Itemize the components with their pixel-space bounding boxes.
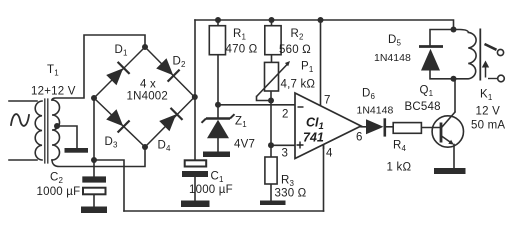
svg-text:12+12 V: 12+12 V — [31, 86, 76, 98]
wire pin 4 to bottom rail — [323, 145, 325, 212]
svg-text:1N4148: 1N4148 — [357, 105, 394, 117]
op-amp U1 (CI1 741) — [295, 93, 361, 159]
node bridge right apex — [192, 94, 198, 100]
svg-text:1000 µF: 1000 µF — [189, 184, 233, 196]
node rail pin7 — [318, 17, 324, 23]
relay K1 core — [479, 29, 481, 81]
node bridge top apex — [142, 44, 148, 50]
wire R3 to ground — [270, 184, 272, 201]
wire bottom rail (0V) — [124, 210, 324, 212]
wire R2 to P1 — [271, 55, 273, 63]
node left apex / C2 — [91, 157, 97, 163]
svg-text:4V7: 4V7 — [234, 139, 255, 151]
ground C1 — [181, 201, 210, 208]
relay K1 lower contact — [498, 75, 505, 82]
diode D2 — [157, 59, 180, 82]
wire AC input bottom stub — [9, 159, 37, 161]
relay K1 switch blade — [485, 44, 497, 50]
node pin3 / R3 — [268, 142, 274, 148]
wire R2 top lead — [271, 20, 273, 26]
svg-text:1 kΩ: 1 kΩ — [387, 162, 412, 174]
wire C2 lead — [93, 160, 95, 176]
wire pin3 net — [271, 144, 295, 146]
svg-text:741: 741 — [303, 131, 324, 145]
wire center tap to ground — [57, 126, 77, 148]
node center tap — [54, 123, 60, 129]
wire lower contact stub — [488, 78, 498, 80]
svg-text:470 Ω: 470 Ω — [226, 44, 258, 56]
wire left apex node to bottom rail — [94, 160, 124, 211]
capacitor C2 — [82, 176, 106, 206]
svg-text:1000 µF: 1000 µF — [37, 186, 81, 198]
bridge rectifier edges — [94, 47, 195, 147]
svg-text:4: 4 — [326, 148, 333, 160]
node rail R1 — [215, 17, 221, 23]
resistor R2 — [265, 26, 281, 55]
svg-text:12 V: 12 V — [476, 106, 501, 118]
wire Q1 emitter to ground — [453, 145, 455, 169]
svg-text:4 x: 4 x — [140, 79, 156, 91]
wire R1 top lead — [217, 20, 219, 26]
ground R3 — [260, 201, 286, 206]
wire right apex vertical (rail to C1) — [194, 20, 196, 160]
wire bridge left apex down — [93, 98, 95, 160]
resistor R1 — [209, 26, 225, 55]
svg-text:330 Ω: 330 Ω — [275, 188, 307, 200]
transformer T1 secondary winding — [52, 100, 60, 160]
wire pin 7 to +rail — [320, 20, 322, 106]
diode D3 — [107, 110, 130, 132]
potentiometer P1 — [257, 61, 291, 97]
resistor R4 — [393, 123, 421, 134]
node relay top — [451, 27, 457, 33]
wire secondary bottom to bridge bottom apex — [52, 147, 145, 167]
transformer T1 primary winding — [35, 101, 42, 160]
label op-amp minus — [298, 106, 304, 108]
wire secondary top to bridge top apex — [52, 35, 145, 100]
diode D5 — [419, 47, 443, 71]
node bridge left apex — [91, 95, 97, 101]
wire top +rail — [195, 20, 454, 30]
junction node dots — [54, 17, 457, 163]
svg-text:4,7 kΩ: 4,7 kΩ — [281, 79, 316, 91]
wire R3 top lead — [270, 145, 272, 157]
node relay bottom — [451, 76, 457, 82]
wire P1 bottom lead through to R3 node — [270, 91, 272, 145]
diode D6 — [366, 118, 385, 136]
ground Z1 — [203, 152, 230, 158]
svg-text:3: 3 — [282, 148, 289, 160]
diode D1 — [107, 62, 130, 85]
transistor Q1 — [432, 112, 463, 148]
label op-amp plus — [297, 142, 304, 149]
relay K1 upper contact — [497, 49, 503, 55]
svg-text:BC548: BC548 — [405, 101, 441, 113]
resistor R3 — [265, 157, 277, 184]
svg-text:1N4002: 1N4002 — [127, 91, 168, 103]
ground C2 — [81, 207, 107, 214]
wire Q1 collector to relay bottom node — [454, 79, 456, 112]
wire op-amp output to D6 — [361, 126, 366, 128]
node P1 wiper — [268, 98, 274, 104]
node bridge bottom apex — [142, 144, 148, 150]
svg-text:2: 2 — [282, 109, 289, 121]
relay K1 coil — [454, 30, 477, 79]
capacitor C1 — [182, 160, 208, 200]
wire relay top node to D5 — [430, 30, 454, 47]
svg-text:560 Ω: 560 Ω — [279, 44, 311, 56]
wire pin2 net (Z1 node to op-amp) — [218, 104, 295, 106]
wire P1 wiper bend — [257, 97, 272, 101]
svg-text:50 mA: 50 mA — [471, 120, 505, 132]
zener Z1 — [202, 114, 235, 138]
wire D6 to R4 — [386, 126, 394, 128]
wire R4 to Q1 base — [421, 127, 440, 129]
wire R1 bottom to Z1 node — [217, 55, 219, 118]
svg-text:7: 7 — [324, 95, 331, 107]
wire AC input top stub — [9, 100, 37, 102]
ground Q1 emitter — [434, 168, 466, 174]
transformer T1 core — [45, 99, 48, 163]
diode D4 — [160, 108, 182, 130]
AC sine symbol — [11, 114, 29, 126]
ground center tap — [65, 148, 89, 153]
wire pin 4 stub inside — [323, 145, 325, 150]
relay actuation arrow — [482, 61, 489, 78]
wire Z1 to ground — [217, 138, 219, 151]
svg-text:6: 6 — [356, 132, 363, 144]
svg-text:1N4148: 1N4148 — [374, 52, 411, 64]
node Z1 / pin2 — [215, 102, 221, 108]
wire D5 bottom to relay bottom node — [430, 71, 455, 79]
node rail R2 — [269, 17, 275, 23]
